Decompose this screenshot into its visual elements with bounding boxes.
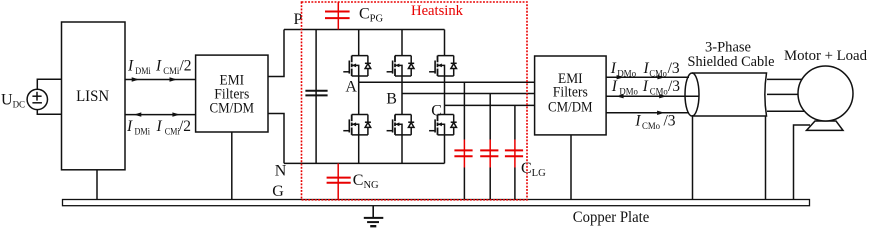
svg-text:CMo: CMo [650, 87, 668, 97]
svg-text:LISN: LISN [76, 88, 109, 105]
transistor Q4 [387, 94, 415, 164]
LISN box [62, 22, 126, 170]
svg-text:I: I [611, 78, 618, 95]
wire EMI2 to plate [570, 135, 572, 200]
svg-text:/2: /2 [180, 58, 192, 75]
svg-text:CM/DM: CM/DM [548, 99, 593, 115]
wire cable to motor 3 [767, 110, 807, 112]
svg-text:CM/DM: CM/DM [210, 100, 255, 116]
svg-text:I: I [127, 58, 134, 75]
svg-text:DMi: DMi [135, 66, 151, 76]
transistor Q2 [343, 82, 371, 163]
wire EMI1 to P bus [268, 30, 284, 77]
capacitor CLG3 [505, 105, 523, 199]
wire source bottom [37, 110, 61, 115]
wire LISN to plate [96, 170, 98, 200]
svg-text:3-Phase: 3-Phase [705, 39, 751, 55]
svg-text:G: G [272, 183, 284, 200]
svg-text:I: I [610, 60, 617, 77]
transistor Q5 [429, 30, 457, 106]
svg-text:UDC: UDC [1, 92, 25, 110]
svg-text:I: I [156, 118, 163, 135]
svg-text:DMo: DMo [619, 87, 638, 97]
transistor Q3 [387, 30, 415, 94]
svg-text:I: I [155, 58, 162, 75]
EMI filter 2 box [535, 56, 607, 135]
svg-text:DMi: DMi [135, 126, 151, 136]
capacitor CNG [327, 163, 351, 199]
ground [364, 206, 384, 227]
capacitor CPG [325, 2, 350, 30]
svg-text:Shielded Cable: Shielded Cable [688, 54, 775, 70]
transistor Q1 [343, 30, 371, 83]
svg-text:Motor + Load: Motor + Load [784, 48, 867, 64]
node A wire [359, 81, 535, 83]
node B wire [402, 93, 535, 95]
transistor Q6 [429, 105, 457, 163]
motor circle [798, 66, 853, 121]
svg-text:C: C [431, 102, 442, 119]
voltage source UDC [27, 89, 47, 109]
DC-link capacitor [305, 30, 327, 164]
svg-text:CMi: CMi [163, 66, 179, 76]
wire EMI2 out phase 2 [606, 95, 699, 97]
wire motor ground [794, 125, 811, 200]
N rail wire [284, 162, 445, 164]
EMI filter 1 box [196, 55, 268, 132]
label ICMo/3 line3 [634, 113, 675, 131]
capacitor CLG2 [480, 94, 498, 200]
wire cable to motor 1 [767, 78, 807, 80]
wire LISN to EMI filter top [125, 79, 196, 81]
svg-text:/3: /3 [664, 113, 676, 130]
label IDMo ICMo/3 line1 [610, 60, 680, 78]
svg-text:/3: /3 [668, 60, 680, 77]
svg-text:CMo: CMo [642, 121, 660, 131]
svg-text:CMo: CMo [649, 68, 667, 78]
wire EMI2 out phase 1 [606, 76, 689, 78]
heatsink boundary [302, 2, 528, 200]
wire source top [37, 79, 61, 89]
label IDMi ICMi/2 top [127, 58, 192, 76]
wire LISN to EMI filter bottom [125, 114, 196, 116]
wire cable shield ground right [765, 116, 767, 200]
svg-text:N: N [275, 163, 287, 180]
svg-text:CPG: CPG [359, 5, 384, 24]
svg-text:Filters: Filters [553, 85, 588, 101]
svg-text:/3: /3 [668, 78, 680, 95]
svg-text:Heatsink: Heatsink [411, 3, 463, 19]
capacitor CLG1 [454, 82, 472, 199]
wire EMI1 to N bus [268, 114, 284, 164]
svg-text:I: I [126, 118, 133, 135]
wire cable to motor 2 [767, 93, 807, 95]
wire cable shield ground left [692, 116, 694, 200]
wire EMI2 out phase 3 [606, 112, 689, 114]
svg-text:A: A [345, 79, 357, 96]
svg-text:I: I [634, 113, 641, 130]
label IDMo ICMo/3 line2 [611, 78, 681, 96]
svg-text:DMo: DMo [617, 68, 636, 78]
svg-text:I: I [642, 78, 649, 95]
svg-text:Copper Plate: Copper Plate [573, 209, 650, 226]
svg-text:B: B [386, 90, 397, 107]
shielded cable cylinder [685, 73, 767, 116]
copper plate [63, 200, 810, 206]
wire EMI1 to plate [231, 132, 233, 200]
motor stand [807, 121, 844, 130]
svg-text:CLG: CLG [521, 160, 546, 179]
svg-text:CMi: CMi [165, 126, 180, 136]
svg-text:CNG: CNG [353, 172, 379, 191]
P rail wire [284, 29, 445, 31]
svg-text:/2: /2 [179, 118, 191, 135]
label IDMi ICMi/2 bottom [126, 118, 191, 136]
node C wire [445, 104, 535, 106]
